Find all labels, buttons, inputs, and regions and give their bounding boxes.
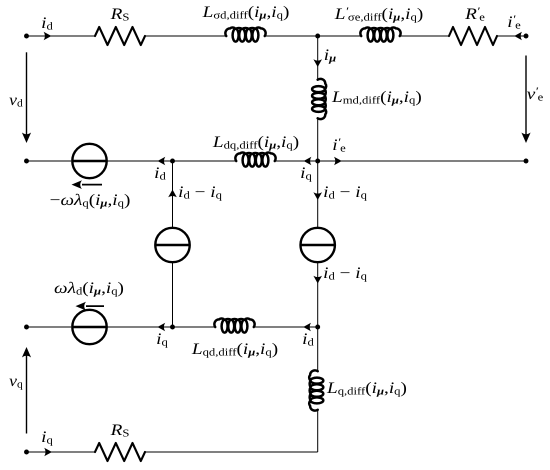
- wire row1 d: [497, 35, 526, 37]
- lambda_d arrow: [86, 305, 104, 307]
- node row2 right: [524, 159, 529, 164]
- inductor L_q: [309, 370, 323, 410]
- label L_dq_diff: [212, 134, 298, 152]
- wire colB to row4: [317, 410, 319, 452]
- wire row3 b: [106, 326, 173, 328]
- wire Lmd to row2: [317, 119, 319, 162]
- label R_S top: [110, 5, 129, 23]
- wire colB lower: [317, 262, 319, 327]
- wire row1 b: [264, 35, 363, 37]
- wire row1 a: [145, 35, 228, 37]
- label v_e_prime: [527, 85, 544, 103]
- label v_q: [9, 372, 23, 390]
- wire row3 c: [173, 326, 216, 328]
- resistor R_S top: [95, 27, 145, 45]
- wire colB row3 down: [317, 327, 319, 371]
- label i_q row3: [156, 330, 168, 348]
- label i_d row3: [302, 330, 314, 348]
- wire i_mu branch: [317, 36, 319, 80]
- voltage arrow v_e_prime: [525, 56, 527, 135]
- arrow i_e_prime row2: [334, 157, 342, 166]
- wire colA upper: [172, 161, 174, 228]
- label L_q_diff: [327, 379, 407, 397]
- arrow i_q row2: [304, 157, 312, 166]
- node row2 left: [24, 159, 29, 164]
- wire row1 c: [399, 35, 450, 37]
- wire row1 left: [27, 35, 96, 37]
- label L_md_diff: [332, 89, 422, 107]
- wire row3 d: [254, 326, 318, 328]
- label i_d-i_q colA: [178, 184, 222, 202]
- wire colA lower: [172, 262, 174, 327]
- node top-right: [524, 34, 529, 39]
- arrow i_e_prime top: [514, 32, 522, 41]
- inductor L_sigma_e: [360, 27, 400, 41]
- label R_e_prime: [465, 5, 485, 23]
- resistor R_S bottom: [95, 443, 145, 461]
- current source colA: [155, 228, 189, 262]
- label i_mu: [324, 47, 336, 65]
- arrow i_q row3: [157, 323, 165, 332]
- resistor R_e_prime: [449, 27, 497, 45]
- node row4 left: [24, 450, 29, 455]
- inductor L_dq: [235, 152, 275, 166]
- arrow i_d row3: [303, 323, 311, 332]
- label L_sigma_d_diff: [202, 4, 289, 22]
- wire row3 left: [27, 326, 72, 328]
- label -w lambda_q: [49, 192, 130, 210]
- arrow i_d-i_q colB top: [313, 192, 322, 200]
- label i_e_prime row2: [332, 137, 345, 155]
- node top-left: [24, 34, 29, 39]
- label L_qd_diff: [192, 341, 278, 359]
- node row3 colA: [170, 325, 175, 330]
- label v_d: [9, 91, 23, 109]
- label i_q row2: [300, 164, 312, 182]
- label R_S bottom: [110, 421, 129, 439]
- label i_e_prime top: [507, 13, 520, 31]
- voltage source -w lambda_q: [72, 144, 106, 178]
- wire row4 left: [27, 451, 96, 453]
- inductor L_md: [312, 79, 326, 119]
- wire row2 d: [276, 160, 318, 162]
- node row1 mid: [315, 34, 320, 39]
- inductor L_qd: [214, 318, 254, 332]
- inductor L_sigma_d: [225, 27, 265, 41]
- label i_d row2: [154, 165, 166, 183]
- node row3 colB: [315, 325, 320, 330]
- arrow i_d row2: [158, 157, 166, 166]
- arrow i_q row4: [44, 448, 52, 457]
- wire row2 c: [173, 160, 236, 162]
- arrow i_d-i_q colA: [168, 190, 177, 198]
- label i_d-i_q colB bottom: [323, 265, 367, 283]
- label i_q row4: [41, 429, 53, 447]
- voltage arrow v_d: [26, 52, 28, 134]
- node row2 colB: [315, 159, 320, 164]
- voltage source w lambda_d: [72, 310, 106, 344]
- voltage arrow v_q: [26, 356, 28, 434]
- node row3 left: [24, 325, 29, 330]
- wire colB upper: [317, 161, 319, 228]
- label i_d row1: [41, 14, 53, 32]
- label L_sigma_e_diff: [335, 5, 423, 23]
- node row2 colA: [170, 159, 175, 164]
- wire row4 right: [145, 451, 318, 453]
- wire row2 e: [318, 160, 526, 162]
- arrow i_d row1: [44, 32, 52, 41]
- lambda_q arrow: [82, 184, 102, 186]
- arrow i_d-i_q colB bottom: [313, 276, 322, 284]
- current source colB: [301, 228, 335, 262]
- label i_d-i_q colB top: [323, 184, 367, 202]
- wire row2 b: [106, 160, 173, 162]
- wire row2 left: [27, 160, 72, 162]
- label w lambda_d: [54, 280, 124, 298]
- arrow i_mu: [313, 59, 322, 67]
